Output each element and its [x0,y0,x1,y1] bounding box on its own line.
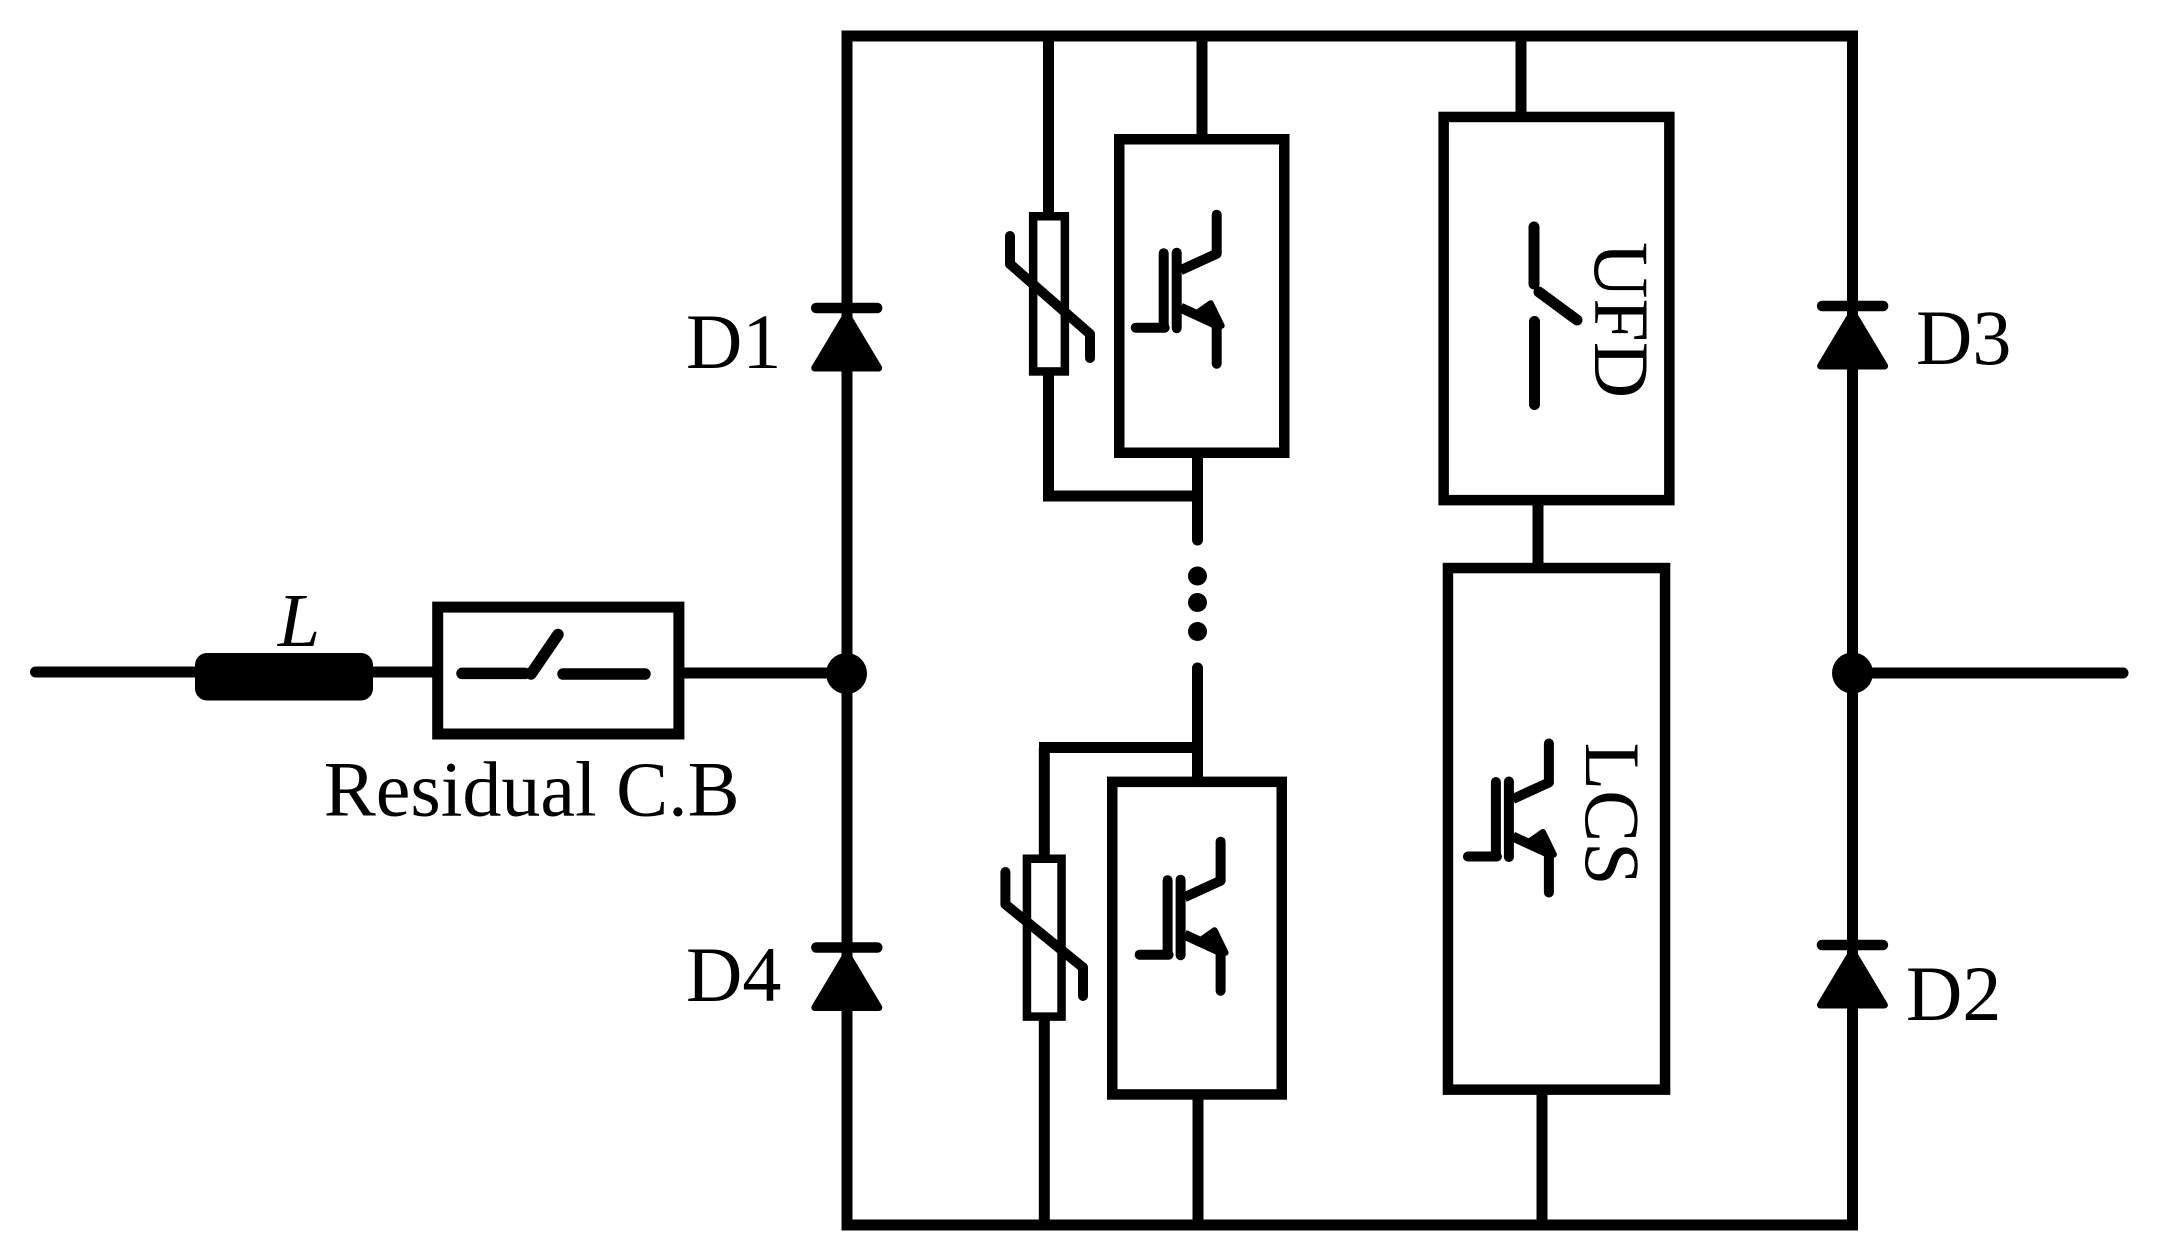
svg-text:D2: D2 [1906,950,2001,1037]
svg-text:D1: D1 [686,298,781,385]
svg-text:UFD: UFD [1578,242,1665,398]
svg-text:Residual C.B: Residual C.B [324,746,740,833]
svg-text:LCS: LCS [1569,742,1656,885]
svg-text:L: L [277,579,320,663]
svg-text:D3: D3 [1916,294,2011,381]
svg-text:D4: D4 [686,931,781,1018]
